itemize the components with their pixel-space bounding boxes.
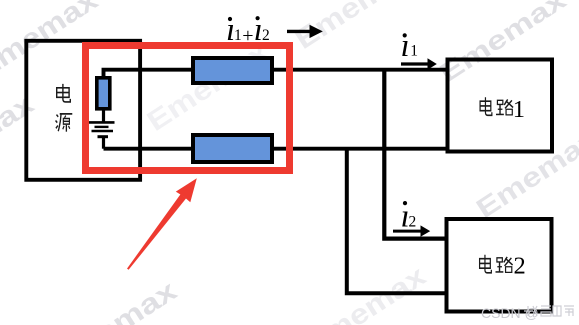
wire battery to bottom wire: [102, 137, 105, 149]
wire i2 branch (node to 电路2): [384, 70, 446, 239]
label i2: [401, 199, 417, 235]
svg-text:2: 2: [409, 214, 417, 231]
label 电 (in 电源): [57, 84, 71, 102]
svg-text:ı: ı: [401, 28, 410, 64]
svg-text:1: 1: [513, 96, 525, 123]
label i1+i2 (current): [226, 12, 270, 48]
label 源 (in 电源): [56, 114, 73, 132]
highlight box (red): [86, 46, 290, 171]
arrow i1+i2: [287, 25, 323, 38]
label 电 (in 电路2): [480, 255, 492, 273]
svg-text:CSDN @: CSDN @: [481, 305, 539, 321]
battery plate long 1: [89, 121, 115, 124]
svg-text:2: 2: [262, 27, 270, 44]
wire Rs to battery: [102, 109, 105, 122]
resistor R2 (bottom): [193, 135, 272, 162]
battery plate short 1: [95, 126, 109, 128]
svg-text:+: +: [242, 25, 253, 47]
battery plate long 2: [92, 130, 114, 133]
annotation arrow (red): [127, 194, 186, 270]
wire top (source to 电路1): [104, 70, 446, 77]
svg-text:Ememax: Ememax: [0, 87, 39, 189]
box 电路1 (circuit 1): [448, 60, 553, 152]
label 路 (in 电路1): [496, 99, 513, 114]
wire return (bottom wire to 电路2): [347, 149, 446, 294]
resistor Rs (source internal, vertical): [97, 78, 110, 109]
arrow i1: [401, 58, 437, 69]
svg-text:2: 2: [514, 253, 526, 280]
arrow i2: [393, 225, 430, 236]
svg-text:Ememax: Ememax: [471, 123, 579, 224]
svg-text:Ememax: Ememax: [44, 274, 182, 325]
watermark CSDN @和蔼的皇兄: [481, 305, 574, 321]
box 电路2 (circuit 2): [447, 219, 552, 312]
battery plate short 2: [98, 135, 109, 138]
resistor R1 (top): [193, 58, 272, 83]
label 电 (in 电路1): [480, 97, 492, 115]
svg-text:1: 1: [410, 43, 418, 60]
label 路 (in 电路2): [496, 257, 513, 272]
svg-text:1: 1: [234, 27, 242, 44]
box 电源 (power source): [26, 41, 140, 180]
svg-text:Ememax: Ememax: [141, 35, 274, 137]
wire bottom (battery to 电路1): [104, 147, 446, 151]
label i1: [401, 28, 419, 64]
